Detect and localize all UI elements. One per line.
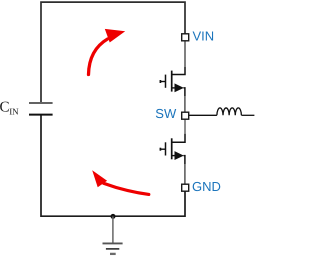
node VIN terminal square (182, 34, 189, 41)
wire top-left loop (left rail upper + top rail + right rail to VIN) (41, 2, 185, 103)
svg-text:SW: SW (155, 106, 177, 121)
wire bottom loop (left rail lower + bottom rail + right rail from GND) (41, 115, 185, 217)
wire inductor to output (241, 114, 254, 116)
junction dot (111, 214, 116, 219)
wire Q1 source to SW (184, 96, 186, 112)
capacitor CIN bottom plate (29, 114, 53, 116)
svg-text:GND: GND (192, 179, 221, 194)
svg-text:C: C (0, 100, 10, 116)
node SW terminal square (182, 112, 189, 119)
wire Q2 source to GND (184, 164, 186, 184)
svg-text:IN: IN (9, 107, 19, 117)
wire VIN to Q1 drain (184, 41, 186, 67)
svg-text:VIN: VIN (193, 29, 215, 44)
capacitor CIN top plate (29, 102, 53, 104)
inductor L1 (217, 108, 241, 115)
wire SW to Q2 drain (184, 119, 186, 134)
red arrow top (loop current) (89, 29, 126, 75)
transistor Q1 (high-side NMOS) (160, 67, 185, 96)
node GND terminal square (182, 184, 189, 191)
transistor Q2 (low-side NMOS) (160, 134, 185, 164)
label CIN (0, 100, 19, 117)
red arrow bottom (loop current) (92, 170, 149, 194)
wire SW to inductor (189, 114, 217, 116)
ground (103, 216, 123, 254)
